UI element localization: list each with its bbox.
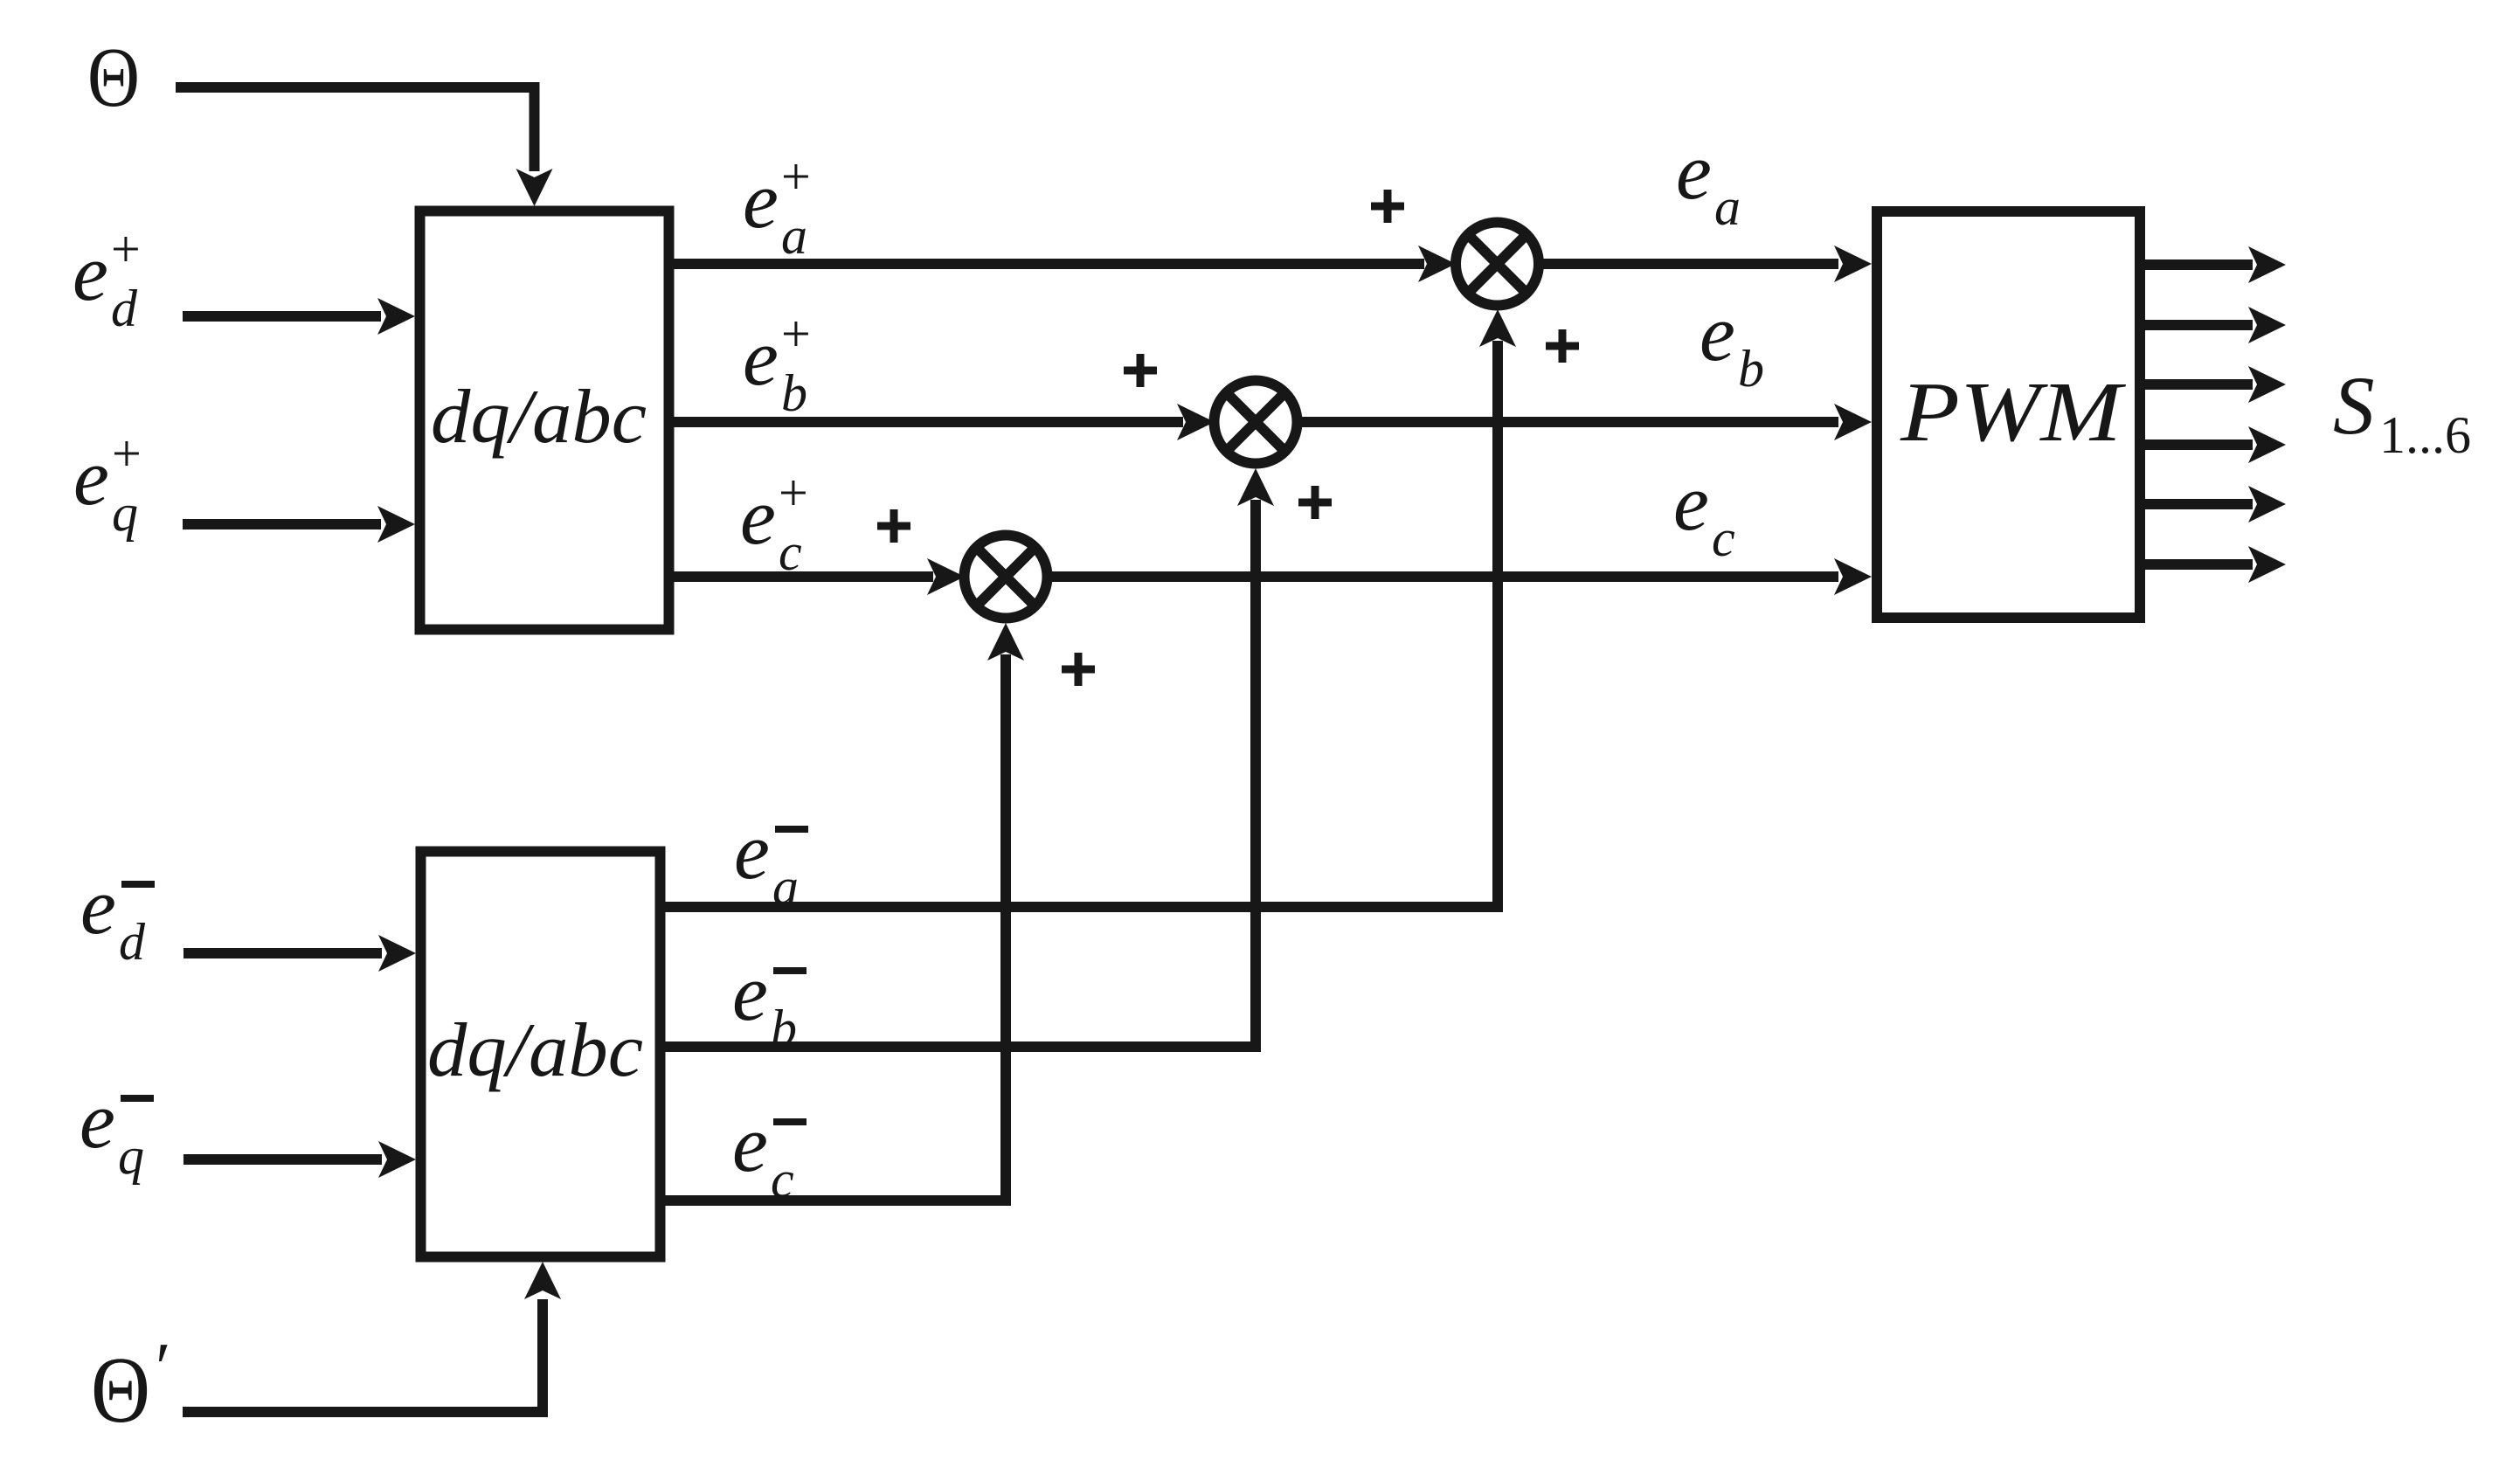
node e_q- label <box>80 1076 154 1185</box>
node e_d- label <box>80 862 155 971</box>
wire e_c- from U2 up to S3 vertical input <box>664 623 1024 1201</box>
plus sign at S2 vertical input <box>1298 486 1332 519</box>
wire e_d+ input to U1 <box>183 298 415 335</box>
svg-text:′: ′ <box>156 1330 171 1407</box>
block PWM <box>1877 211 2140 618</box>
node e_a+ label <box>743 148 811 265</box>
node S_1...6 label <box>2333 359 2471 464</box>
summing junction S3 <box>965 536 1048 619</box>
wire e_q- input to U2 <box>183 1141 416 1178</box>
wire e_b from S2 to PWM <box>1298 404 1873 440</box>
svg-text:e: e <box>743 313 779 402</box>
wire e_b- from U2 up to S2 vertical input <box>664 468 1274 1047</box>
summing junction S2 <box>1215 381 1298 464</box>
svg-text:b: b <box>1738 340 1764 398</box>
plus sign at S3 vertical input <box>1062 653 1095 686</box>
node Theta-prime label <box>91 1330 171 1443</box>
svg-text:d: d <box>119 913 146 971</box>
node e_b label <box>1700 288 1764 398</box>
svg-text:e: e <box>743 156 779 245</box>
summing junction S1 <box>1456 223 1539 306</box>
svg-text:+: + <box>781 305 811 363</box>
svg-text:c: c <box>1712 509 1735 567</box>
block PWM label <box>1900 365 2127 459</box>
svg-text:e: e <box>73 432 109 522</box>
svg-text:e: e <box>1676 127 1712 216</box>
node e_a- label <box>734 806 808 916</box>
svg-text:e: e <box>80 862 116 951</box>
wire e_c from S3 to PWM <box>1048 558 1873 595</box>
block U2 label dq/abc <box>427 1008 643 1093</box>
svg-text:d: d <box>111 280 138 337</box>
svg-text:e: e <box>1700 288 1735 377</box>
node e_c label <box>1673 458 1735 567</box>
svg-text:PWM: PWM <box>1900 365 2127 459</box>
wire e_q+ input to U1 <box>183 506 415 543</box>
svg-text:dq/abc: dq/abc <box>427 1008 643 1093</box>
wire PWM output S2 <box>2140 307 2286 343</box>
wire PWM output S6 <box>2140 546 2286 583</box>
svg-text:q: q <box>118 1127 144 1185</box>
block U2 dq/abc (negative sequence) <box>421 852 661 1257</box>
wire Theta-prime to U2 bottom input <box>183 1262 561 1412</box>
block U1 dq/abc (positive sequence) <box>420 211 669 630</box>
svg-text:e: e <box>732 948 768 1037</box>
svg-text:dq/abc: dq/abc <box>431 375 647 460</box>
svg-text:q: q <box>112 484 138 542</box>
wire e_a- from U2 up to S1 vertical input <box>664 309 1516 907</box>
wire PWM output S3 <box>2140 366 2286 403</box>
wire Theta to dq/abc block U1 top input <box>176 87 553 206</box>
svg-text:Θ: Θ <box>87 31 140 125</box>
block U1 label dq/abc <box>431 375 647 460</box>
svg-text:e: e <box>734 806 770 896</box>
plus sign at S1 horizontal input <box>1371 190 1404 223</box>
wire e_b+ from U1 to summing junction S2 <box>674 404 1215 440</box>
plus sign at S3 horizontal input <box>877 509 910 543</box>
node e_b+ label <box>743 305 811 422</box>
svg-text:Θ: Θ <box>91 1339 150 1443</box>
wire e_c+ from U1 to summing junction S3 <box>674 558 965 595</box>
node e_q+ label <box>73 425 142 542</box>
svg-text:+: + <box>111 220 141 278</box>
svg-text:+: + <box>779 464 808 522</box>
svg-text:S: S <box>2333 359 2375 452</box>
plus sign at S2 horizontal input <box>1124 354 1157 387</box>
svg-text:b: b <box>781 364 807 422</box>
svg-text:a: a <box>1714 178 1741 236</box>
plus sign at S1 vertical input <box>1546 329 1579 363</box>
svg-text:e: e <box>732 1099 768 1188</box>
svg-text:e: e <box>80 1076 115 1165</box>
svg-text:a: a <box>781 207 807 265</box>
svg-text:+: + <box>112 425 142 482</box>
svg-text:+: + <box>781 148 811 205</box>
svg-text:e: e <box>1673 458 1709 547</box>
svg-text:1...6: 1...6 <box>2379 406 2471 464</box>
node e_d+ label <box>73 220 141 337</box>
node e_a label <box>1676 127 1741 236</box>
node e_c- label <box>732 1099 807 1208</box>
wire PWM output S4 <box>2140 426 2286 463</box>
wire e_a+ from U1 to summing junction S1 <box>674 246 1456 282</box>
wire PWM output S5 <box>2140 486 2286 522</box>
wire e_a from S1 to PWM <box>1539 246 1872 282</box>
node e_c+ label <box>740 464 808 581</box>
svg-text:e: e <box>73 228 108 317</box>
node e_b- label <box>732 948 807 1057</box>
node Theta label <box>87 31 140 125</box>
wire PWM output S1 <box>2140 246 2286 283</box>
svg-text:e: e <box>740 472 776 561</box>
wire e_d- input to U2 <box>183 935 416 972</box>
